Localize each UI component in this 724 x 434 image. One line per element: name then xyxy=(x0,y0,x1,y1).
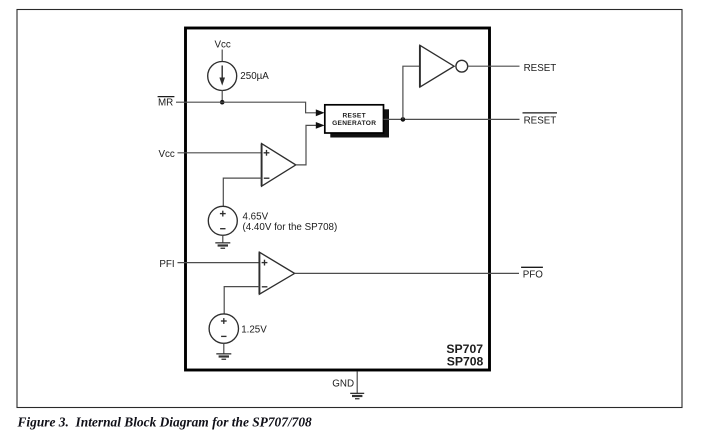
RESET-bar pin label xyxy=(523,113,558,127)
wire reset generator output (RESET-bar) xyxy=(384,118,520,120)
wire RESET output xyxy=(468,65,520,67)
node junction reset output xyxy=(401,117,406,122)
reset generator U3 xyxy=(325,105,389,138)
wire from current source to MR node xyxy=(221,90,223,102)
svg-text:4.65V: 4.65V xyxy=(243,212,269,223)
MR pin label xyxy=(158,97,175,109)
svg-text:Vcc: Vcc xyxy=(159,149,175,160)
wire PFO output xyxy=(295,272,519,274)
svg-text:RESET: RESET xyxy=(524,63,557,74)
svg-text:GENERATOR: GENERATOR xyxy=(332,120,376,127)
node junction MR / current source xyxy=(220,100,225,105)
svg-text:PFI: PFI xyxy=(159,259,174,270)
wire MR to reset generator xyxy=(176,102,318,113)
ground (4.65V reference) xyxy=(215,235,230,249)
svg-text:GND: GND xyxy=(332,378,354,389)
svg-text:250µA: 250µA xyxy=(240,71,269,82)
wire node to inverter input xyxy=(403,66,420,119)
svg-text:Vcc: Vcc xyxy=(215,40,231,51)
wire PFI to comparator plus input xyxy=(178,262,260,264)
voltage reference 4.65V xyxy=(208,206,237,235)
IC body SP707/708 xyxy=(186,28,490,370)
voltage reference 1.25V xyxy=(209,314,238,343)
wire GND xyxy=(356,371,358,393)
wire comparator U5 minus to 1.25V reference xyxy=(224,287,259,314)
wire Vcc stub xyxy=(221,50,223,63)
svg-text:RESET: RESET xyxy=(342,113,365,120)
svg-text:MR: MR xyxy=(158,98,173,109)
wire Vcc to comparator plus input xyxy=(178,152,262,154)
arrowhead MR into reset generator xyxy=(316,109,325,116)
svg-text:(4.40V for the SP708): (4.40V for the SP708) xyxy=(243,222,338,233)
svg-text:RESET: RESET xyxy=(524,115,557,126)
wire comparator U2 minus to 4.65V reference xyxy=(223,178,261,206)
wire comparator U2 output to reset generator xyxy=(296,125,318,164)
comparator U5 xyxy=(259,252,294,294)
inverter U4 xyxy=(420,45,468,87)
current source I1 250uA xyxy=(208,62,237,91)
arrowhead comparator into reset generator xyxy=(316,122,325,129)
svg-text:SP708: SP708 xyxy=(447,354,484,368)
ground (GND pin) xyxy=(350,393,364,400)
comparator U2 xyxy=(262,144,296,187)
svg-text:1.25V: 1.25V xyxy=(241,325,267,336)
svg-text:Figure 3. Internal Block Diag: Figure 3. Internal Block Diagram for the… xyxy=(17,415,313,430)
PFO pin label xyxy=(521,267,543,280)
ground (1.25V reference) xyxy=(216,343,231,360)
svg-text:PFO: PFO xyxy=(523,270,544,281)
